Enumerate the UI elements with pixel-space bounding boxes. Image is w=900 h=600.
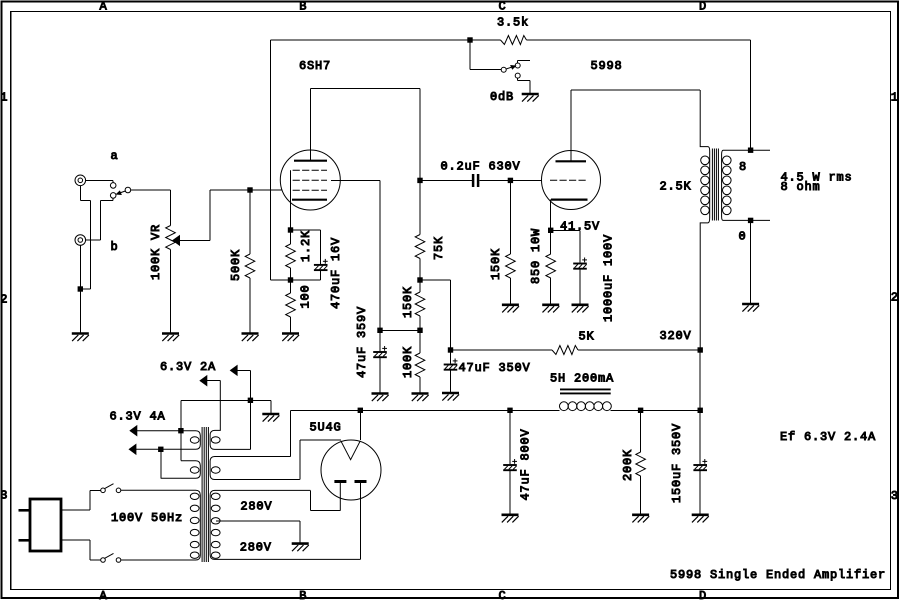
svg-text:5998: 5998	[591, 59, 623, 73]
wire 47uF 359V top lead	[379, 330, 381, 351]
wire center tap to ground	[299, 521, 301, 543]
wire 500K bottom lead	[249, 278, 251, 333]
wire switch common to pot	[130, 189, 170, 191]
resistor R-FB 3.5k	[501, 36, 527, 45]
ground heater rail	[262, 414, 279, 422]
svg-text:100: 100	[299, 284, 313, 308]
wire feedback top horizontal	[270, 39, 470, 41]
potentiometer VR1 100K VR element	[166, 226, 176, 250]
wire pot top lead	[170, 190, 172, 226]
svg-text:1: 1	[0, 90, 8, 104]
wire down to 8 ohm tap	[750, 40, 752, 150]
node coupling	[418, 178, 422, 182]
vacuum tube V1 6SH7 envelope	[280, 150, 340, 210]
wire plug top	[61, 509, 90, 511]
svg-text:850 10W: 850 10W	[529, 228, 543, 284]
wire B+ rail right	[611, 409, 701, 411]
wire 1.2K top lead	[290, 230, 292, 244]
node cathode top	[288, 228, 292, 232]
node screen divider	[418, 328, 422, 332]
resistor R9 5K	[552, 346, 578, 355]
resistor R4 75K	[415, 235, 425, 259]
node heater ground rail	[248, 398, 252, 402]
node 47uF350 tap	[448, 348, 452, 352]
vacuum tube V3 5U4G envelope	[321, 440, 381, 500]
svg-text:150K: 150K	[401, 286, 415, 318]
vacuum tube V2 5998 envelope	[542, 151, 601, 210]
ground 1000uF	[572, 305, 589, 313]
power transformer T1 core	[202, 427, 208, 562]
wire 150uF top lead	[699, 410, 701, 464]
svg-text:8: 8	[739, 160, 747, 174]
wire 0dB open stub	[518, 60, 530, 62]
resistor R2 1.2K	[286, 244, 296, 268]
ground 150uF	[692, 515, 709, 523]
wire shield jog 1	[80, 199, 90, 201]
node 8 ohm tap	[748, 148, 752, 152]
ground input jacks	[72, 334, 89, 342]
node 6SH7 grid	[248, 188, 252, 192]
V1 grid g1	[293, 189, 327, 191]
wire 100K bottom lead	[419, 377, 421, 393]
wire V1 cathode lead	[290, 200, 292, 230]
svg-text:5H 200mA: 5H 200mA	[550, 372, 614, 386]
V1 grid g2	[293, 179, 327, 181]
wire to switch common contact	[470, 69, 501, 71]
svg-text:0dB: 0dB	[490, 90, 514, 104]
resistor R3 100	[286, 293, 296, 317]
wire 75K bottom lead	[419, 259, 421, 281]
resistor R5 150K	[415, 292, 425, 316]
wire pot bottom lead	[170, 250, 172, 333]
ground 100R	[282, 334, 299, 342]
V1 plate	[294, 160, 327, 162]
wire b vertical	[99, 200, 101, 240]
wire V2 cathode lead	[550, 200, 552, 231]
output transformer T2 secondary loops	[723, 156, 732, 215]
output transformer T2 core	[712, 149, 718, 221]
wire V2 plate lead	[570, 90, 572, 161]
svg-text:1000uF 100V: 1000uF 100V	[602, 234, 616, 322]
switch SW2 mains lower	[101, 553, 121, 562]
wire rail to ground	[270, 400, 272, 413]
wire V1 plate lead	[309, 89, 311, 161]
svg-text:a: a	[111, 149, 119, 163]
svg-text:200K: 200K	[621, 449, 635, 481]
ground 47uF 350V	[442, 393, 459, 401]
V3 plate left	[334, 482, 346, 511]
ground 47uF 800V	[502, 515, 519, 523]
wire 320V line right	[578, 349, 700, 351]
AC plug P1	[30, 499, 61, 551]
svg-text:D: D	[699, 0, 707, 13]
wire 47uF 350V to cap	[450, 350, 452, 364]
wire filament left	[300, 439, 341, 441]
wire 47uF 350V top vertical	[450, 280, 452, 350]
arrow heater 4A hot	[130, 426, 137, 436]
node 200K	[638, 408, 642, 412]
node cathode bottom	[288, 278, 292, 282]
switch SW-IN contact b	[110, 193, 116, 199]
power transformer T1 secondary 280-0-280	[210, 490, 360, 559]
svg-text:0.2uF 630V: 0.2uF 630V	[441, 160, 521, 174]
V2 cathode	[551, 199, 588, 201]
wire 150uF bottom lead	[699, 471, 701, 514]
choke L1 5H 200mA core	[560, 389, 611, 393]
wire 320V to rail	[699, 350, 701, 410]
node 4A top	[179, 429, 183, 433]
power transformer T1 winding 6.3V 2A	[210, 381, 250, 450]
capacitor C2 470uF 16V	[314, 259, 328, 270]
V3 filament	[341, 441, 361, 460]
choke L1 5H 200mA winding	[560, 402, 612, 411]
ground 850	[542, 305, 559, 313]
svg-text:C: C	[499, 589, 507, 600]
wire 200K bottom lead	[640, 476, 642, 514]
svg-text:5998 Single Ended Amplifier: 5998 Single Ended Amplifier	[670, 568, 886, 582]
power transformer T1 winding 6.3V 4A	[136, 431, 200, 450]
node 47uF 800V	[508, 408, 512, 412]
wire 150K top lead	[419, 280, 421, 292]
wire wiper to grid node	[210, 189, 250, 191]
wire cap to grid node	[479, 179, 510, 181]
wire screen node horizontal	[380, 329, 420, 331]
arrow heater 2A hot	[231, 366, 238, 376]
wire rail to 5V winding	[290, 410, 292, 456]
svg-text:B: B	[299, 589, 307, 600]
power transformer T1 winding 5V rectifier	[210, 457, 300, 480]
wire cathode to 1000uF	[551, 229, 580, 231]
wire 1000uF bottom lead	[579, 270, 581, 304]
wire switch to ground 1	[517, 78, 519, 80]
node 0 tap	[748, 218, 752, 222]
svg-text:2: 2	[0, 292, 8, 306]
svg-text:3: 3	[891, 489, 899, 503]
switch SW-IN common	[125, 187, 131, 193]
wire 3.5k to secondary	[527, 39, 751, 41]
wire 47uF 800V bottom lead	[509, 471, 511, 514]
V2 grid	[550, 179, 586, 181]
wire plug bottom	[61, 539, 90, 541]
svg-text:B: B	[299, 0, 307, 13]
wire 200K top lead	[640, 410, 642, 452]
wire V2 plate to OPT	[571, 89, 700, 91]
power transformer T1 winding 6.3V 4A parallel	[161, 461, 201, 479]
capacitor C5 47uF 350V	[444, 359, 458, 370]
wire B+ to filament	[359, 410, 361, 440]
wire screen vertical	[379, 180, 381, 330]
wire b horizontal	[100, 199, 113, 201]
node V2 cathode	[549, 228, 553, 232]
node 320V	[698, 348, 702, 352]
wire 150K bottom lead	[419, 316, 421, 330]
wire 75K top lead	[419, 180, 421, 234]
svg-text:1.2K: 1.2K	[299, 230, 313, 262]
wire contact b stub	[112, 198, 114, 200]
wire 470uF bottom lead	[320, 271, 322, 280]
svg-text:1: 1	[891, 90, 899, 104]
ground 0dB switch	[522, 94, 539, 102]
svg-text:A: A	[100, 589, 108, 600]
wire 47uF 359V bottom lead	[379, 358, 381, 393]
capacitor C1 0.2uF 630V	[473, 174, 478, 187]
wire 150K grid leak top lead	[509, 180, 511, 254]
svg-text:100K: 100K	[401, 346, 415, 378]
output transformer T2 secondary outline	[722, 150, 770, 220]
wire 1.2K bottom lead	[290, 268, 292, 280]
wire switch to ground 3	[529, 81, 531, 94]
wire 320V line left	[451, 349, 553, 351]
wire feedback to cathode junction	[270, 279, 290, 281]
AC plug prong upper	[19, 509, 31, 512]
V2 plate	[556, 160, 587, 162]
wire heater ground rail	[181, 399, 271, 401]
svg-text:150K: 150K	[489, 248, 503, 280]
output transformer T2 primary loops	[701, 156, 710, 215]
wire 100R top lead	[290, 280, 292, 293]
svg-text:2.5K: 2.5K	[660, 180, 692, 194]
wire feedback vertical	[269, 40, 271, 280]
wire 100K top lead	[419, 330, 421, 353]
svg-text:500K: 500K	[229, 249, 243, 281]
node 4A bottom	[159, 447, 163, 451]
ground 150K grid	[502, 305, 519, 313]
node rectifier output	[358, 408, 362, 412]
arrow heater 2A return	[200, 376, 207, 386]
potentiometer VR1 wiper arrow	[173, 236, 180, 245]
svg-text:6SH7: 6SH7	[299, 59, 331, 73]
switch SW-FB arm	[506, 66, 515, 69]
wire V1 plate top horizontal	[310, 88, 420, 90]
wire cap bottom to junction	[291, 279, 321, 281]
wire filament left vertical	[299, 440, 301, 480]
switch SW-FB contact grounded	[515, 73, 520, 78]
svg-text:75K: 75K	[432, 236, 446, 260]
wire shield jog 3	[80, 288, 90, 290]
node feedback/0dB switch junction	[468, 38, 472, 42]
wire 4A to parallel winding	[180, 431, 182, 461]
AC plug prong lower	[19, 539, 31, 542]
switch SW-FB contact 0dB	[515, 63, 520, 68]
svg-text:3: 3	[0, 488, 8, 502]
svg-text:280V: 280V	[240, 541, 272, 555]
ground 100K	[412, 394, 429, 402]
ground pot	[162, 334, 179, 342]
node 5998 grid	[508, 178, 512, 182]
wire to 47uF 350V	[420, 279, 451, 281]
ground 200K	[632, 515, 649, 523]
wire to 3.5k resistor	[470, 39, 501, 41]
svg-text:3.5k: 3.5k	[497, 16, 529, 30]
wire HV center tap	[216, 520, 300, 522]
wire grid into 5998	[510, 179, 541, 181]
wire 2A arrow	[237, 369, 250, 371]
svg-text:100K VR: 100K VR	[149, 224, 163, 280]
wire plate to coupling node	[419, 89, 421, 181]
wire plug bottom vertical	[89, 540, 91, 560]
node 150uF	[698, 408, 702, 412]
svg-text:47uF 800V: 47uF 800V	[519, 428, 533, 500]
wire 4A top to heater rail	[180, 400, 182, 430]
wire to left plate stem	[310, 510, 340, 512]
wire 47uF 800V top lead	[509, 410, 511, 464]
output transformer T2 primary winding 2.5K outline	[700, 90, 710, 350]
wire grid into 6SH7	[250, 189, 282, 191]
V1 grid g3	[293, 169, 327, 171]
wire V1 screen lead	[331, 179, 380, 181]
svg-text:150uF 350V: 150uF 350V	[670, 423, 684, 503]
wire to mains switch bottom	[90, 559, 101, 561]
svg-text:47uF 350V: 47uF 350V	[459, 361, 531, 375]
power transformer T1 primary 100V	[121, 490, 201, 560]
node screen bypass	[378, 328, 382, 332]
wire J1 to contact a	[112, 180, 114, 183]
V1 g3-cathode strap	[290, 170, 292, 199]
resistor R8 850 10W	[546, 254, 556, 278]
resistor R7 150K	[506, 254, 516, 278]
wire B+ rail left	[291, 409, 560, 411]
svg-text:5U4G: 5U4G	[310, 421, 342, 435]
svg-text:2: 2	[891, 290, 899, 304]
input jack J2 (b)	[75, 235, 86, 246]
wire 850 top lead	[550, 230, 552, 254]
wire 4A to parallel winding bottom	[160, 449, 162, 478]
wire 47uF 350V bottom lead	[450, 371, 452, 393]
wire 470uF top lead	[320, 230, 322, 264]
svg-text:6.3V 2A: 6.3V 2A	[160, 360, 216, 374]
svg-text:D: D	[699, 589, 707, 600]
switch SW-IN arm	[117, 191, 126, 195]
resistor R6 100K	[415, 353, 425, 377]
wire plug top vertical	[89, 490, 91, 510]
wire to coupling cap	[420, 179, 472, 181]
svg-text:Ef 6.3V 2.4A: Ef 6.3V 2.4A	[780, 430, 876, 444]
wire 150K grid bottom lead	[509, 278, 511, 304]
svg-text:C: C	[499, 0, 507, 13]
wire J1 tip	[86, 179, 114, 181]
wire cathode to cap	[291, 229, 321, 231]
switch SW-FB common contact	[501, 67, 506, 72]
svg-text:100V 50Hz: 100V 50Hz	[111, 511, 183, 525]
wire 2A to junction	[249, 370, 251, 400]
wire J2 shield to ground	[79, 245, 81, 332]
wire 100R bottom lead	[290, 317, 292, 333]
switch SW-IN contact a	[110, 183, 116, 189]
V1 cathode	[292, 199, 327, 201]
wire 1000uF top lead	[579, 230, 581, 262]
switch SW1 mains upper	[101, 484, 121, 493]
V3 plate right	[355, 482, 367, 560]
resistor R1 500K	[245, 254, 255, 278]
ground 47uF 359V	[372, 394, 389, 402]
wire 2A return arrow	[207, 380, 221, 382]
ground center tap	[292, 544, 309, 552]
wire J2 tip	[86, 239, 101, 241]
wire junction to switch common	[469, 40, 471, 70]
wire 0dB stub up	[517, 61, 519, 64]
wire plate left vertical	[309, 490, 311, 510]
wire 500K top lead	[249, 190, 251, 254]
wire switch to ground 2	[518, 80, 530, 82]
capacitor C3 47uF 359V	[373, 346, 387, 357]
svg-text:320V: 320V	[660, 329, 692, 343]
wire to mains switch top	[90, 489, 101, 491]
wire wiper horizontal	[180, 239, 211, 241]
wire secondary to ground	[750, 220, 752, 303]
wire J1 shield down	[79, 186, 81, 201]
svg-text:6.3V 4A: 6.3V 4A	[110, 410, 166, 424]
ground 500K	[242, 334, 259, 342]
node shield junction	[78, 287, 82, 291]
svg-text:0: 0	[739, 230, 747, 244]
input jack J1 (a)	[75, 175, 86, 186]
svg-text:470uF 16V: 470uF 16V	[329, 237, 343, 309]
svg-text:b: b	[111, 240, 119, 254]
svg-text:A: A	[100, 0, 108, 13]
wire shield jog 2	[89, 200, 91, 289]
node 75K/150K	[418, 278, 422, 282]
svg-text:47uF 359V: 47uF 359V	[355, 306, 369, 378]
resistor R10 200K	[636, 452, 646, 476]
wire wiper vertical	[209, 190, 211, 240]
wire to 2A winding bottom	[249, 400, 251, 449]
arrow heater 4A return	[129, 445, 136, 455]
ground secondary	[742, 304, 759, 312]
wire 850 bottom lead	[550, 278, 552, 304]
svg-text:280V: 280V	[240, 500, 272, 514]
capacitor C7 150uF 350V	[693, 459, 707, 470]
capacitor C6 47uF 800V	[503, 459, 517, 470]
svg-text:5K: 5K	[579, 330, 595, 344]
capacitor C4 1000uF 100V	[573, 258, 587, 269]
svg-text:8 ohm: 8 ohm	[781, 180, 821, 194]
